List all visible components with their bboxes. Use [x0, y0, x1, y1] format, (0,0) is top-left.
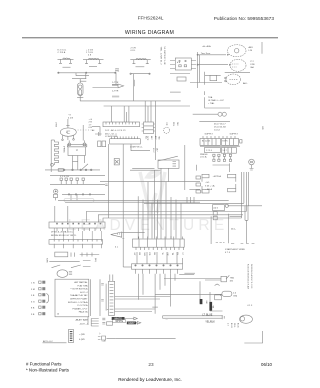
svg-text:START ASS'T WIRE: START ASS'T WIRE: [225, 248, 245, 251]
svg-text:B1 C2 D3: B1 C2 D3: [202, 141, 210, 143]
svg-text:FGATAR - LP (T: FGATAR - LP (T: [72, 307, 88, 310]
svg-text:40 (L-: 40 (L-: [231, 229, 236, 231]
svg-text:YL: YL: [161, 253, 163, 255]
svg-text:4 (WD: 4 (WD: [79, 339, 85, 341]
svg-text:9L1: 9L1: [145, 136, 147, 139]
svg-text:06/10: 06/10: [261, 362, 273, 367]
svg-text:23: 23: [148, 362, 154, 367]
svg-text:1TR4: 1TR4: [55, 122, 57, 127]
svg-text:Y.E.L: Y.E.L: [233, 323, 235, 327]
svg-text:ERI: ERI: [261, 127, 263, 131]
svg-text:DEFROST FCART: DEFROST FCART: [70, 298, 88, 301]
svg-text:LK?: LK?: [156, 148, 158, 151]
svg-text:2K0: 2K0: [176, 122, 178, 125]
svg-text:GM: GM: [205, 301, 207, 304]
svg-text:( -: ( -: [99, 333, 101, 335]
svg-text:+A - ALA: +A - ALA: [202, 45, 211, 48]
svg-text:THA AACT AL TAC: THA AACT AL TAC: [70, 294, 88, 297]
svg-text:+ TIAL: + TIAL: [208, 102, 215, 105]
svg-text:Publication No: 5995553673: Publication No: 5995553673: [214, 16, 275, 22]
svg-text:8 B: 8 B: [31, 308, 35, 310]
svg-text:LOC A: LOC A: [200, 156, 207, 159]
svg-text:0 8 L: 0 8 L: [131, 50, 137, 52]
svg-text:1 N: 1 N: [31, 283, 35, 285]
svg-text:A4: A4: [92, 129, 94, 132]
svg-text:LOMI? W.L.L: LOMI? W.L.L: [130, 147, 144, 149]
svg-text:SUPPLY: SUPPLY: [230, 134, 239, 136]
svg-text:.. 30LA: .. 30LA: [205, 188, 212, 191]
svg-text:TWL..42UH 51.2: TWL..42UH 51.2: [160, 47, 162, 66]
svg-text:ULTRA LL---LLP: ULTRA LL---LLP: [208, 99, 225, 102]
svg-text:2 B: 2 B: [89, 122, 93, 124]
svg-text:- 04 -: - 04 -: [205, 182, 210, 184]
svg-text:SUPPLY: SUPPLY: [205, 134, 214, 136]
svg-text:..A LTI --I: ..A LTI --I: [79, 322, 88, 325]
svg-text:.AA ATT AAM: .AA ATT AAM: [75, 319, 88, 322]
svg-text:+ (WD: + (WD: [79, 334, 85, 336]
svg-text:** BOTH ELETICA: ** BOTH ELETICA: [70, 288, 88, 291]
svg-text:T44: T44: [158, 136, 160, 139]
svg-text:AYPLA LL. LOCTA-A: AYPLA LL. LOCTA-A: [68, 301, 88, 304]
svg-text:6 G: 6 G: [31, 302, 35, 304]
svg-text:LT. BLUE: LT. BLUE: [202, 313, 212, 316]
svg-text:5 B: 5 B: [31, 295, 35, 297]
svg-text:5 6 7: 5 6 7: [223, 150, 227, 152]
svg-text:14.C2: 14.C2: [214, 130, 221, 132]
svg-text:* Non-Illustrated Parts: * Non-Illustrated Parts: [26, 368, 70, 373]
svg-text:U: U: [76, 148, 78, 152]
svg-text:W.I.R.I.N.G A.S.S.Y 4.1.3.9: W.I.R.I.N.G A.S.S.Y 4.1.3.9: [250, 264, 253, 289]
svg-text:GRAY: GRAY: [128, 322, 135, 325]
svg-text:B.L.U: B.L.U: [230, 323, 232, 328]
svg-text:Z 2 4 2 B: Z 2 4 2 B: [60, 176, 69, 178]
svg-text:PR.L: PR.L: [172, 122, 174, 126]
svg-text:79A: 79A: [230, 277, 234, 280]
svg-text:FFHS2624L: FFHS2624L: [138, 16, 164, 22]
svg-text:APCL-LLC: APCL-LLC: [43, 340, 53, 343]
svg-text:L.T.: L.T.: [227, 323, 229, 327]
svg-text:3 M: 3 M: [31, 289, 35, 291]
svg-text:9 B: 9 B: [31, 314, 35, 316]
svg-text:4 1 3: 4 1 3: [247, 305, 253, 307]
svg-text:0 R: 0 R: [89, 127, 93, 129]
svg-text:E4 F5: E4 F5: [223, 141, 228, 143]
svg-text:A CO. 4: A CO. 4: [80, 291, 88, 294]
svg-text:FLAT TWA: FLAT TWA: [78, 284, 89, 287]
svg-text:25.L0 41.B2: 25.L0 41.B2: [214, 127, 227, 129]
svg-text:14 2 - A2 +L 0 2 4 C1: 14 2 - A2 +L 0 2 4 C1: [105, 129, 126, 132]
svg-text:Rendered by LeadVenture, Inc.: Rendered by LeadVenture, Inc.: [118, 377, 182, 382]
svg-text:4 2 B: 4 2 B: [68, 117, 74, 119]
svg-text:+SPPLA: +SPPLA: [213, 175, 222, 178]
svg-text:Tina-Taca: Tina-Taca: [201, 53, 211, 55]
svg-text:(0( 5: (0( 5: [214, 208, 219, 210]
svg-text:ANT PARTIAL: ANT PARTIAL: [74, 281, 88, 284]
svg-text:B.L.K: B.L.K: [236, 323, 238, 328]
svg-text:M: M: [66, 132, 68, 134]
svg-text:L-40: L-40: [102, 341, 106, 343]
svg-text:AE L: AE L: [243, 82, 249, 85]
svg-text:1 2 3 4: 1 2 3 4: [206, 150, 212, 152]
svg-text:TKA: TKA: [208, 96, 213, 99]
svg-text:* *: * *: [122, 239, 124, 241]
svg-text:WIRING DIAGRAM: WIRING DIAGRAM: [125, 30, 174, 36]
svg-text:5 05 + LA: 5 05 + LA: [205, 185, 215, 188]
svg-text:L2 B4 T6 R8: L2 B4 T6 R8: [105, 136, 118, 138]
svg-text:YEL/BLK: YEL/BLK: [205, 321, 215, 324]
svg-text:4 T 4: 4 T 4: [225, 252, 231, 254]
svg-text:S2PE: S2PE: [46, 258, 48, 264]
svg-text:(MII): (MII): [94, 258, 96, 262]
svg-text:B07: B07: [154, 136, 156, 139]
svg-text:2F 1B 4L 2K 7A 3D 1C: 2F 1B 4L 2K 7A 3D 1C: [51, 231, 73, 234]
svg-text:P..OCTICA: P..OCTICA: [77, 304, 88, 307]
svg-text:2-TYR: 2-TYR: [112, 91, 119, 93]
svg-text:PALA.T.A: PALA.T.A: [79, 311, 88, 314]
svg-text:4K2: 4K2: [150, 136, 152, 139]
svg-text:GN): GN): [233, 296, 237, 298]
svg-text:46.L7 46.L7: 46.L7 46.L7: [214, 124, 226, 126]
svg-text:1-TYR: 1-TYR: [112, 82, 119, 84]
svg-text:C Z R A: C Z R A: [58, 51, 66, 54]
svg-text:WHITE: WHITE: [115, 320, 123, 323]
svg-text:F2B: F2B: [251, 64, 256, 66]
svg-text:(PRIMI): (PRIMI): [62, 146, 64, 153]
svg-text:R.I.D.G.E W.I.R.I.N.G H.A.R: R.I.D.G.E W.I.R.I.N.G H.A.R: [247, 264, 250, 290]
svg-text:# Functional Parts: # Functional Parts: [26, 362, 62, 367]
svg-text:51.2WCE071 4B: 51.2WCE071 4B: [163, 47, 165, 65]
svg-text:BK WH RD BU GY OR YL: BK WH RD BU GY OR YL: [51, 235, 77, 237]
